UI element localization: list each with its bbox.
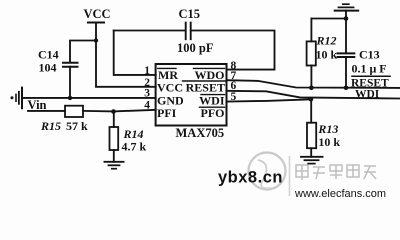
svg-text:100 pF: 100 pF — [177, 41, 214, 55]
watermark chinese characters — [296, 165, 376, 180]
node R12/RESET junction — [309, 86, 314, 91]
svg-text:104: 104 — [39, 60, 57, 74]
node PFI junction — [111, 109, 116, 114]
svg-text:R12: R12 — [316, 34, 337, 48]
svg-text:WDI: WDI — [355, 88, 380, 100]
wire GND line to pin 3 — [22, 97, 156, 99]
svg-text:www.elecfans.com: www.elecfans.com — [294, 188, 386, 200]
svg-text:57 k: 57 k — [66, 119, 88, 133]
capacitor C14 — [63, 63, 78, 98]
capacitor C15 — [186, 23, 191, 40]
node ground/R12/C13 junction — [344, 16, 349, 21]
node R13/WDI junction — [309, 97, 314, 102]
svg-text:PFO: PFO — [201, 106, 225, 120]
wire C14 branch — [70, 41, 96, 63]
svg-text:PFI: PFI — [157, 106, 177, 120]
svg-text:4.7 k: 4.7 k — [122, 140, 147, 154]
svg-text:3: 3 — [144, 88, 150, 100]
svg-text:0.1 μ F: 0.1 μ F — [352, 61, 387, 75]
watermark circles — [249, 153, 290, 197]
wire top right rail — [311, 18, 346, 20]
node C13/RESET junction — [344, 86, 349, 91]
svg-text:4: 4 — [144, 100, 150, 112]
svg-text:VCC: VCC — [84, 7, 111, 21]
svg-text:MAX705: MAX705 — [176, 126, 225, 140]
svg-text:ybx8.cn: ybx8.cn — [218, 169, 283, 187]
ground (input common, left) — [11, 88, 23, 109]
svg-text:10 k: 10 k — [316, 47, 338, 61]
wire pin 1 (MR) from top rail — [114, 31, 156, 75]
wire top rail left segment — [114, 30, 186, 32]
wire pin 6 WDI rail — [227, 91, 400, 99]
capacitor C13 — [338, 19, 355, 88]
wire pin 5 PFO line — [227, 99, 311, 101]
svg-text:R15: R15 — [40, 119, 61, 133]
resistor R15 — [65, 106, 83, 117]
resistor R13 — [307, 99, 316, 157]
node VCC/C14 junction — [94, 38, 98, 42]
ground under R13 — [301, 157, 323, 164]
wire top rail right segment to pin 8 — [191, 31, 275, 70]
resistor R12 — [307, 19, 316, 88]
svg-text:Vin: Vin — [28, 98, 47, 112]
wire junction to pin 4 — [114, 110, 156, 112]
wire VCC vertical to pin 2 — [96, 23, 156, 87]
svg-text:R13: R13 — [317, 122, 338, 136]
svg-text:RESET: RESET — [186, 81, 225, 95]
svg-text:10 k: 10 k — [318, 135, 340, 149]
ground under R14 — [105, 162, 124, 169]
IC U1 MAX705 — [156, 64, 227, 126]
ground (top right) — [335, 4, 359, 18]
svg-text:VCC: VCC — [157, 81, 183, 95]
power VCC terminal — [88, 22, 104, 24]
svg-text:C15: C15 — [179, 7, 201, 21]
wire Vin to R15 — [28, 110, 65, 112]
resistor R14 — [110, 112, 119, 162]
svg-text:1: 1 — [144, 65, 150, 77]
svg-text:C13: C13 — [359, 47, 380, 61]
wire pin 7 RESET rail — [227, 80, 400, 88]
node C14/GND junction — [68, 96, 72, 100]
wire R15 to junction — [83, 110, 114, 113]
net label RESET — [351, 76, 390, 89]
